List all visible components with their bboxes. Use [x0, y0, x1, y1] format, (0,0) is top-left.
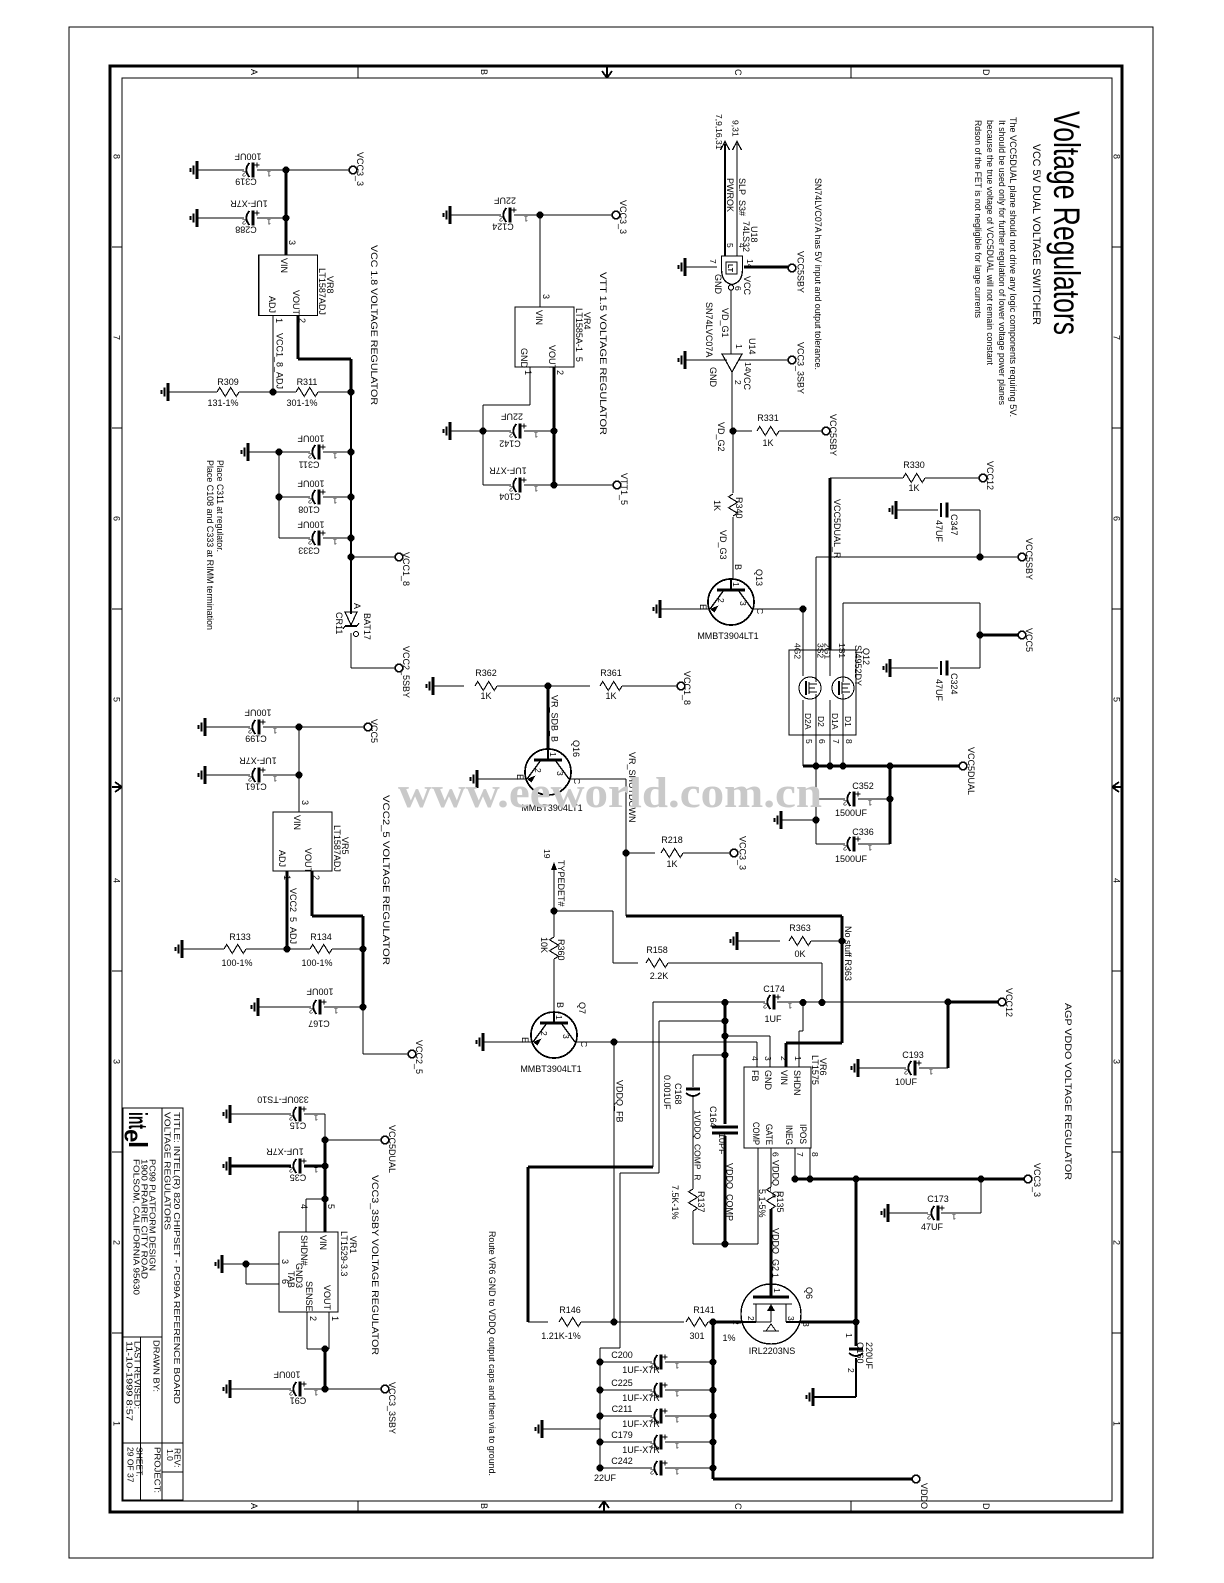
svg-text:1: 1	[523, 370, 533, 375]
svg-text:The VCC5DUAL plane should not: The VCC5DUAL plane should not drive any …	[1008, 117, 1018, 417]
svg-text:C168: C168	[673, 1083, 683, 1105]
svg-text:VCC3_3SBY VOLTAGE REGULATOR: VCC3_3SBY VOLTAGE REGULATOR	[369, 1175, 380, 1355]
svg-text:C200: C200	[611, 1350, 633, 1360]
svg-text:C35: C35	[290, 1173, 307, 1183]
svg-text:R133: R133	[229, 932, 251, 942]
svg-text:VD_G1: VD_G1	[720, 308, 730, 338]
svg-text:VCC 5V DUAL VOLTAGE SWITCHER: VCC 5V DUAL VOLTAGE SWITCHER	[1030, 144, 1042, 325]
svg-text:1%: 1%	[722, 1333, 735, 1343]
svg-text:VR1: VR1	[348, 1236, 358, 1254]
svg-text:C352: C352	[852, 781, 874, 791]
svg-text:1S1: 1S1	[837, 643, 847, 658]
svg-text:D1A: D1A	[830, 713, 840, 730]
svg-text:7: 7	[795, 1152, 805, 1157]
svg-text:1: 1	[675, 1442, 679, 1451]
svg-text:LT1529-3.3: LT1529-3.3	[339, 1231, 349, 1276]
svg-text:VCC2_5_ADJ: VCC2_5_ADJ	[288, 888, 298, 944]
svg-text:2: 2	[843, 799, 847, 808]
svg-text:2: 2	[539, 1031, 549, 1036]
svg-text:1: 1	[675, 1390, 679, 1399]
svg-text:5: 5	[804, 739, 814, 744]
svg-text:SHDN#: SHDN#	[299, 1235, 309, 1266]
svg-text:C142: C142	[499, 439, 521, 449]
svg-text:2: 2	[746, 1316, 756, 1321]
svg-text:D2: D2	[816, 716, 826, 727]
svg-text:6: 6	[1112, 516, 1122, 521]
svg-text:1: 1	[929, 1068, 933, 1077]
svg-text:VCC5DUAL_R: VCC5DUAL_R	[832, 499, 842, 559]
svg-text:6: 6	[112, 516, 122, 521]
svg-text:VTT1_5: VTT1_5	[619, 473, 629, 505]
svg-text:C15: C15	[290, 1121, 307, 1131]
svg-text:2: 2	[716, 598, 726, 603]
svg-text:VTT 1.5 VOLTAGE REGULATOR: VTT 1.5 VOLTAGE REGULATOR	[597, 272, 608, 435]
svg-text:VIN: VIN	[779, 1070, 789, 1085]
svg-text:BAT17: BAT17	[362, 613, 372, 640]
svg-text:Voltage Regulators: Voltage Regulators	[1046, 111, 1087, 335]
svg-text:GND: GND	[519, 348, 529, 369]
svg-text:D2A: D2A	[803, 713, 813, 730]
svg-text:VOLTAGE REGULATORS: VOLTAGE REGULATORS	[163, 1112, 173, 1230]
svg-text:VR_SDB_B: VR_SDB_B	[550, 695, 560, 742]
svg-text:4: 4	[112, 878, 122, 883]
svg-text:R146: R146	[559, 1305, 581, 1315]
svg-text:1UF-X7R: 1UF-X7R	[239, 756, 277, 766]
svg-text:7: 7	[1112, 335, 1122, 340]
svg-text:ADJ: ADJ	[267, 296, 277, 313]
svg-text:8: 8	[1112, 154, 1122, 159]
svg-text:Q7: Q7	[577, 1002, 587, 1014]
svg-text:1K: 1K	[908, 483, 919, 493]
svg-text:Q12: Q12	[861, 648, 871, 665]
svg-text:1UF-X7R: 1UF-X7R	[622, 1393, 660, 1403]
svg-text:MMBT3904LT1: MMBT3904LT1	[520, 1064, 581, 1074]
svg-text:MMBT3904LT1: MMBT3904LT1	[697, 631, 758, 641]
svg-text:Rdson of the FET is not neglig: Rdson of the FET is not negligible for l…	[973, 120, 983, 318]
svg-text:1.21K-1%: 1.21K-1%	[541, 1331, 581, 1341]
svg-text:C193: C193	[902, 1050, 924, 1060]
svg-text:100UF: 100UF	[297, 520, 325, 530]
svg-text:VCC5SBY: VCC5SBY	[796, 251, 806, 293]
svg-text:VD_G2: VD_G2	[716, 422, 726, 452]
svg-text:1: 1	[554, 1015, 564, 1020]
svg-text:E: E	[520, 1037, 530, 1043]
svg-text:1: 1	[788, 1002, 792, 1011]
svg-text:3: 3	[112, 1059, 122, 1064]
svg-text:C124: C124	[492, 222, 514, 232]
svg-text:10PF: 10PF	[717, 1133, 727, 1155]
svg-text:VCC5: VCC5	[369, 719, 379, 743]
svg-text:R362: R362	[475, 668, 497, 678]
svg-text:5.1-5%: 5.1-5%	[757, 1189, 767, 1218]
svg-text:1: 1	[548, 752, 558, 757]
svg-text:4: 4	[299, 1204, 309, 1209]
svg-text:1UF: 1UF	[764, 1014, 782, 1024]
svg-text:1: 1	[524, 215, 528, 224]
svg-text:22UF: 22UF	[500, 412, 523, 422]
svg-text:1K: 1K	[605, 691, 616, 701]
svg-text:3: 3	[541, 294, 551, 299]
svg-text:U14: U14	[747, 338, 757, 355]
svg-text:C311: C311	[299, 460, 320, 470]
svg-text:B: B	[733, 564, 743, 570]
svg-text:VCC12: VCC12	[985, 461, 995, 490]
svg-text:1: 1	[333, 452, 337, 461]
svg-text:l: l	[123, 1141, 153, 1148]
svg-text:C336: C336	[852, 827, 874, 837]
svg-text:C347: C347	[949, 514, 959, 536]
svg-text:2: 2	[509, 431, 513, 440]
svg-text:3: 3	[300, 800, 310, 805]
svg-text:1: 1	[675, 1416, 679, 1425]
svg-text:B: B	[479, 69, 489, 75]
svg-text:DRAWN BY:: DRAWN BY:	[152, 1340, 162, 1392]
svg-text:2: 2	[308, 497, 312, 506]
svg-text:Q13: Q13	[754, 569, 764, 586]
svg-text:1: 1	[534, 485, 538, 494]
svg-text:Place C108 and C333 at RIMM te: Place C108 and C333 at RIMM termination	[205, 460, 215, 630]
svg-text:5: 5	[1112, 697, 1122, 702]
svg-text:1: 1	[675, 1468, 679, 1477]
svg-text:GND: GND	[763, 1070, 773, 1091]
svg-text:VCC 1.8 VOLTAGE REGULATOR: VCC 1.8 VOLTAGE REGULATOR	[368, 245, 379, 405]
svg-text:7,9,16,31: 7,9,16,31	[714, 114, 724, 150]
svg-text:7: 7	[708, 259, 718, 264]
svg-text:R340: R340	[734, 497, 744, 519]
svg-text:Place C311 at regulator.: Place C311 at regulator.	[215, 460, 225, 552]
svg-text:8: 8	[112, 154, 122, 159]
svg-text:8: 8	[844, 739, 854, 744]
svg-text:1: 1	[952, 1213, 956, 1222]
svg-text:FOLSOM, CALIFORNIA 95630: FOLSOM, CALIFORNIA 95630	[132, 1159, 142, 1295]
svg-text:C288: C288	[235, 225, 257, 235]
svg-text:VD_G3: VD_G3	[718, 530, 728, 560]
svg-text:100UF: 100UF	[306, 987, 334, 997]
svg-text:VCC12: VCC12	[1004, 988, 1014, 1017]
svg-text:7: 7	[112, 335, 122, 340]
svg-text:VDDQ_FB: VDDQ_FB	[615, 1080, 625, 1123]
svg-text:GND: GND	[708, 367, 718, 388]
svg-text:IPOS: IPOS	[798, 1124, 808, 1144]
svg-text:VOUT: VOUT	[291, 290, 301, 316]
svg-text:R360: R360	[556, 939, 566, 961]
svg-text:47UF: 47UF	[934, 679, 944, 702]
svg-text:C333: C333	[298, 546, 320, 556]
svg-text:22UF: 22UF	[493, 196, 516, 206]
svg-text:R330: R330	[903, 460, 925, 470]
svg-text:VIN: VIN	[534, 310, 544, 325]
svg-text:C91: C91	[290, 1396, 307, 1406]
svg-text:VCC3_3SBY: VCC3_3SBY	[387, 1382, 397, 1434]
svg-text:C108: C108	[298, 505, 320, 515]
svg-text:INEG: INEG	[784, 1125, 794, 1145]
svg-text:VCC5SBY: VCC5SBY	[1024, 538, 1034, 580]
svg-text:VR6: VR6	[818, 1058, 828, 1076]
svg-text:1: 1	[333, 538, 337, 547]
svg-text:SN74LVC07A has 5V input and ou: SN74LVC07A has 5V input and output toler…	[813, 178, 823, 370]
svg-text:ADJ: ADJ	[277, 850, 287, 867]
svg-text:R135: R135	[775, 1191, 785, 1213]
svg-text:1: 1	[1112, 1421, 1122, 1426]
svg-text:1VDDQ_COMP_R: 1VDDQ_COMP_R	[693, 1110, 703, 1180]
svg-text:5: 5	[112, 697, 122, 702]
svg-text:PWROK: PWROK	[725, 178, 735, 212]
svg-text:1: 1	[273, 775, 277, 784]
svg-text:3: 3	[1112, 1059, 1122, 1064]
svg-text:1: 1	[314, 1389, 318, 1398]
svg-text:3: 3	[763, 1056, 773, 1061]
svg-text:VIN: VIN	[318, 1235, 328, 1250]
svg-text:2: 2	[779, 1056, 789, 1061]
svg-text:301: 301	[689, 1331, 704, 1341]
svg-text:VCC2_5SBY: VCC2_5SBY	[401, 646, 411, 698]
svg-text:1: 1	[112, 1421, 122, 1426]
svg-text:Q16: Q16	[571, 740, 581, 757]
svg-text:C: C	[733, 1503, 743, 1510]
svg-text:VR4: VR4	[582, 312, 592, 330]
svg-text:GND: GND	[713, 274, 723, 295]
svg-text:U18: U18	[749, 226, 759, 243]
svg-text:C199: C199	[245, 734, 267, 744]
svg-text:131-1%: 131-1%	[207, 398, 238, 408]
svg-text:2: 2	[846, 1368, 856, 1373]
svg-text:5: 5	[326, 1204, 336, 1209]
svg-text:C104: C104	[499, 492, 521, 502]
svg-text:VCC2_5: VCC2_5	[414, 1040, 424, 1074]
svg-text:1: 1	[274, 318, 284, 323]
svg-text:VCC3_3SBY: VCC3_3SBY	[796, 342, 806, 394]
svg-text:3: 3	[287, 240, 297, 245]
svg-text:VDDQ_G2: VDDQ_G2	[771, 1228, 781, 1271]
svg-text:47UF: 47UF	[934, 520, 944, 543]
svg-text:1: 1	[844, 1333, 854, 1338]
svg-text:VCC3_3: VCC3_3	[355, 152, 365, 186]
svg-text:3: 3	[786, 1316, 796, 1321]
svg-text:R134: R134	[310, 932, 332, 942]
svg-text:1UF-X7R: 1UF-X7R	[266, 1147, 304, 1157]
svg-text:C211: C211	[612, 1404, 633, 1414]
svg-text:VCC1_8: VCC1_8	[401, 552, 411, 586]
svg-text:int: int	[123, 1112, 153, 1129]
svg-text:29 OF 37: 29 OF 37	[126, 1447, 136, 1483]
svg-text:100UF: 100UF	[234, 152, 262, 162]
svg-text:R141: R141	[693, 1305, 715, 1315]
svg-text:FB: FB	[750, 1070, 760, 1082]
svg-text:1: 1	[330, 1316, 340, 1321]
svg-text:2: 2	[112, 1240, 122, 1245]
svg-text:TYPEDET#: TYPEDET#	[556, 860, 566, 907]
svg-text:SN74LVC07A: SN74LVC07A	[704, 302, 714, 357]
svg-text:VCC3_3: VCC3_3	[738, 836, 748, 870]
svg-text:R218: R218	[661, 835, 683, 845]
svg-text:C167: C167	[308, 1019, 330, 1029]
svg-text:VCC5SBY: VCC5SBY	[828, 414, 838, 456]
svg-text:2: 2	[763, 1002, 767, 1011]
svg-text:4: 4	[750, 1056, 760, 1061]
svg-text:5: 5	[725, 243, 735, 248]
svg-text:2: 2	[650, 1468, 654, 1477]
svg-text:VCC1_8_ADJ: VCC1_8_ADJ	[275, 333, 285, 389]
svg-text:9,31: 9,31	[731, 120, 741, 137]
svg-text:CR11: CR11	[334, 612, 344, 634]
svg-text:100UF: 100UF	[297, 479, 325, 489]
svg-text:1: 1	[772, 1288, 782, 1293]
svg-text:D1: D1	[843, 716, 853, 727]
svg-text:C179: C179	[611, 1430, 633, 1440]
svg-text:3: 3	[280, 1259, 290, 1264]
svg-text:VOUT: VOUT	[303, 848, 313, 874]
svg-text:SENSE: SENSE	[304, 1281, 314, 1312]
svg-text:because the true voltage of VC: because the true voltage of VCC5DUAL wil…	[985, 120, 995, 365]
svg-text:330UF-TS10: 330UF-TS10	[257, 1095, 309, 1105]
svg-text:1: 1	[793, 1056, 803, 1061]
svg-text:2: 2	[843, 844, 847, 853]
svg-text:VOUT: VOUT	[322, 1285, 332, 1311]
svg-text:VR5: VR5	[340, 837, 350, 855]
svg-text:2: 2	[308, 1316, 318, 1321]
svg-text:1: 1	[734, 344, 744, 349]
svg-text:1: 1	[731, 582, 741, 587]
svg-text:C: C	[733, 69, 743, 76]
svg-text:1UF-X7R: 1UF-X7R	[489, 466, 527, 476]
svg-text:1.0: 1.0	[165, 1449, 175, 1461]
svg-text:100-1%: 100-1%	[221, 958, 252, 968]
svg-text:1K: 1K	[666, 859, 677, 869]
svg-text:C173: C173	[927, 1194, 949, 1204]
svg-text:4: 4	[1112, 878, 1122, 883]
svg-text:0K: 0K	[794, 949, 805, 959]
svg-text:VDDQ_COMP: VDDQ_COMP	[725, 1163, 735, 1221]
svg-text:AGP VDDO VOLTAGE REGULATOR: AGP VDDO VOLTAGE REGULATOR	[1062, 1003, 1073, 1180]
svg-text:0.001UF: 0.001UF	[662, 1075, 672, 1110]
svg-text:1UF-X7R: 1UF-X7R	[230, 199, 268, 209]
svg-text:7: 7	[831, 739, 841, 744]
svg-text:VOUT: VOUT	[547, 345, 557, 371]
svg-text:4G2: 4G2	[793, 643, 803, 659]
svg-text:IRL2203NS: IRL2203NS	[749, 1346, 796, 1356]
svg-text:www.eeworld.com.cn: www.eeworld.com.cn	[398, 770, 822, 817]
svg-text:2: 2	[308, 538, 312, 547]
svg-text:1: 1	[868, 799, 872, 808]
svg-text:C164: C164	[708, 1106, 718, 1128]
svg-text:C324: C324	[949, 673, 959, 695]
svg-text:No stuff R363: No stuff R363	[843, 926, 853, 981]
svg-text:10UF: 10UF	[895, 1077, 918, 1087]
svg-text:VR8: VR8	[325, 276, 335, 294]
svg-text:C174: C174	[763, 984, 785, 994]
svg-text:100-1%: 100-1%	[301, 958, 332, 968]
svg-text:100UF: 100UF	[273, 1370, 301, 1380]
svg-text:6: 6	[733, 286, 743, 291]
svg-text:GATE: GATE	[764, 1124, 774, 1145]
svg-text:R331: R331	[757, 413, 779, 423]
svg-text:VCC1_8: VCC1_8	[682, 671, 692, 705]
svg-text:8: 8	[810, 1152, 820, 1157]
svg-text:PROJECT:: PROJECT:	[153, 1447, 163, 1493]
svg-text:C225: C225	[611, 1378, 633, 1388]
svg-text:D: D	[981, 1503, 991, 1510]
svg-text:Q6: Q6	[804, 1287, 814, 1299]
svg-text:It should be used only for fur: It should be used only for further regul…	[997, 120, 1007, 405]
svg-text:VIN: VIN	[279, 258, 289, 273]
svg-text:1: 1	[675, 1362, 679, 1371]
svg-text:B: B	[479, 1503, 489, 1509]
svg-text:47UF: 47UF	[921, 1222, 944, 1232]
svg-text:R311: R311	[297, 377, 318, 387]
svg-text:R137: R137	[696, 1191, 706, 1213]
svg-text:2: 2	[904, 1068, 908, 1077]
svg-text:1: 1	[334, 1007, 338, 1016]
svg-text:2: 2	[927, 1213, 931, 1222]
svg-text:1: 1	[267, 218, 271, 227]
svg-text:1500UF: 1500UF	[835, 808, 868, 818]
svg-text:1: 1	[267, 170, 271, 179]
svg-text:2: 2	[1112, 1240, 1122, 1245]
svg-text:B: B	[555, 1002, 565, 1008]
svg-text:2G1: 2G1	[823, 643, 833, 659]
svg-text:A: A	[352, 603, 362, 609]
svg-text:SHDN: SHDN	[792, 1070, 802, 1096]
svg-text:1K: 1K	[480, 691, 491, 701]
svg-text:1K: 1K	[712, 500, 722, 511]
svg-text:2: 2	[555, 370, 565, 375]
svg-text:2.2K: 2.2K	[650, 971, 669, 981]
svg-text:2: 2	[309, 1007, 313, 1016]
svg-text:VCC5DUAL: VCC5DUAL	[387, 1125, 397, 1173]
svg-text:1: 1	[771, 1273, 781, 1278]
svg-text:VIN: VIN	[292, 815, 302, 830]
svg-text:1: 1	[868, 844, 872, 853]
svg-text:SLP_S3#: SLP_S3#	[737, 178, 747, 216]
svg-text:LT: LT	[726, 264, 733, 273]
svg-text:301-1%: 301-1%	[286, 398, 317, 408]
svg-text:C319: C319	[235, 177, 257, 187]
svg-text:6: 6	[817, 739, 827, 744]
svg-text:VDDO: VDDO	[919, 1483, 929, 1509]
svg-text:1UF-X7R: 1UF-X7R	[622, 1365, 660, 1375]
svg-text:A: A	[249, 69, 259, 75]
svg-text:1UF-X7R: 1UF-X7R	[622, 1419, 660, 1429]
svg-text:1UF-X7R: 1UF-X7R	[622, 1445, 660, 1455]
svg-text:1: 1	[314, 1114, 318, 1123]
svg-text:100UF: 100UF	[297, 434, 325, 444]
svg-text:VCC3_3: VCC3_3	[1032, 1163, 1042, 1197]
svg-text:6: 6	[280, 1279, 290, 1284]
svg-text:1: 1	[273, 727, 277, 736]
svg-text:COMP: COMP	[751, 1122, 761, 1145]
svg-text:E: E	[698, 604, 708, 610]
svg-text:22UF: 22UF	[594, 1473, 617, 1483]
svg-text:Route VR6 GND to VDDQ output c: Route VR6 GND to VDDQ output caps and th…	[487, 1231, 497, 1476]
svg-text:10K: 10K	[539, 937, 549, 953]
svg-text:1K: 1K	[762, 438, 773, 448]
svg-text:VCC5DUAL: VCC5DUAL	[966, 747, 976, 795]
svg-text:6: 6	[771, 1152, 781, 1157]
svg-text:VCC2_5 VOLTAGE REGULATOR: VCC2_5 VOLTAGE REGULATOR	[380, 795, 391, 965]
svg-text:3: 3	[738, 601, 748, 606]
svg-text:1: 1	[333, 497, 337, 506]
svg-text:2: 2	[308, 452, 312, 461]
svg-text:R158: R158	[646, 945, 668, 955]
svg-text:1500UF: 1500UF	[835, 854, 868, 864]
svg-text:2: 2	[733, 380, 743, 385]
svg-text:3: 3	[561, 1034, 571, 1039]
svg-text:TITLE: INTEL(R) 820 CHIPSET -: TITLE: INTEL(R) 820 CHIPSET - PC99A REFE…	[172, 1112, 182, 1404]
svg-text:C161: C161	[245, 782, 267, 792]
svg-text:C242: C242	[611, 1456, 633, 1466]
svg-text:D: D	[981, 69, 991, 76]
svg-text:A: A	[249, 1503, 259, 1509]
